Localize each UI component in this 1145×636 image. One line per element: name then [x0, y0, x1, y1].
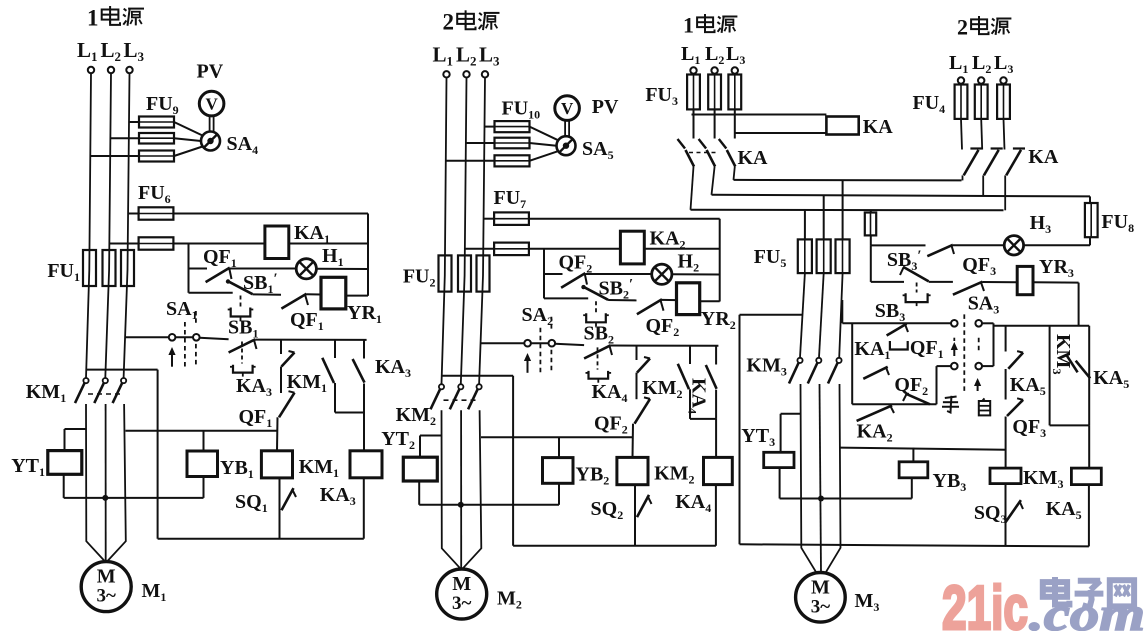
svg-text:V: V [205, 95, 218, 114]
svg-text:M: M [97, 566, 116, 588]
svg-text:KM2: KM2 [642, 377, 682, 401]
svg-text:SB2′: SB2′ [599, 277, 634, 302]
svg-text:2: 2 [957, 15, 968, 40]
svg-text:KM2: KM2 [654, 463, 694, 487]
svg-text:21ic: 21ic [942, 574, 1028, 631]
svg-text:2: 2 [443, 10, 455, 35]
svg-text:SB3′: SB3′ [887, 248, 922, 273]
svg-text:3~: 3~ [97, 586, 117, 607]
svg-text:KM3: KM3 [1050, 334, 1074, 374]
svg-text:KM3: KM3 [746, 355, 786, 379]
svg-text:PV: PV [197, 61, 224, 83]
svg-text:KA: KA [738, 147, 769, 169]
svg-text:KM1: KM1 [299, 456, 339, 480]
svg-text:M: M [811, 576, 830, 598]
svg-text:KA: KA [863, 116, 894, 138]
svg-text:1: 1 [683, 13, 694, 38]
svg-text:KM1: KM1 [26, 381, 66, 405]
svg-text:PV: PV [592, 96, 619, 118]
svg-text:KM3: KM3 [1023, 467, 1063, 491]
svg-text:KM1: KM1 [287, 371, 327, 395]
svg-text:KA: KA [1028, 146, 1059, 168]
svg-text:KM2: KM2 [396, 404, 436, 428]
svg-text:3~: 3~ [452, 593, 472, 614]
svg-text:3~: 3~ [811, 596, 831, 617]
svg-text:SB1′: SB1′ [243, 271, 278, 296]
svg-text:M: M [452, 573, 471, 595]
svg-text:.com: .com [1029, 588, 1145, 631]
svg-text:1: 1 [87, 5, 99, 30]
svg-text:V: V [561, 99, 574, 118]
